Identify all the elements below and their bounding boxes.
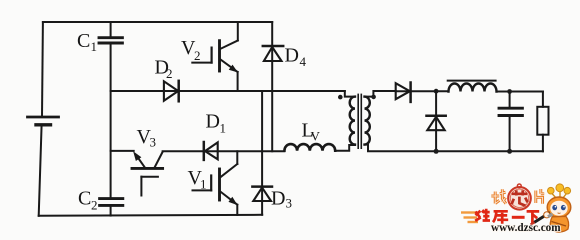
red text ku (库) xyxy=(493,211,508,223)
label V1 xyxy=(188,167,207,192)
wire inductor to load xyxy=(497,91,543,93)
svg-text:D: D xyxy=(206,111,220,133)
transformer primary winding xyxy=(350,97,355,145)
red circle with xin (芯) xyxy=(508,187,531,210)
svg-text:1: 1 xyxy=(200,177,207,192)
battery GB short plate xyxy=(36,123,51,126)
pen xyxy=(534,213,550,223)
diode D1 xyxy=(204,142,218,160)
wire center vertical C1 to C2 xyxy=(110,44,112,197)
svg-text:3: 3 xyxy=(150,135,157,150)
svg-text:C: C xyxy=(78,188,91,210)
svg-text:4: 4 xyxy=(300,54,307,69)
label V2 xyxy=(181,37,201,63)
IGBT V2 xyxy=(192,22,238,91)
svg-text:www.dzsc.com: www.dzsc.com xyxy=(491,222,561,234)
wire left vertical (battery branch top) xyxy=(41,22,44,117)
body xyxy=(550,216,568,232)
head xyxy=(547,197,571,217)
label D4 xyxy=(285,45,307,70)
output inductor core bar xyxy=(448,80,496,82)
wire center vertical below C2 xyxy=(110,207,112,216)
svg-text:C: C xyxy=(77,30,90,52)
transformer secondary winding xyxy=(365,97,370,145)
secondary dot xyxy=(371,95,376,100)
wire lower horizontal mid segment xyxy=(163,150,285,152)
char zhao (找) orange xyxy=(491,189,506,203)
mascot xyxy=(531,184,571,232)
node dot at freewheel diode top xyxy=(434,89,439,94)
transistor V3 xyxy=(132,152,163,196)
wire branch D3 vertical xyxy=(261,91,263,215)
label D2 xyxy=(155,57,173,82)
transformer core xyxy=(357,94,359,148)
wire LV to transformer xyxy=(335,145,355,151)
freewheeling diode xyxy=(427,116,446,130)
node dot cap top xyxy=(507,89,512,94)
output inductor xyxy=(449,84,497,92)
svg-text:D: D xyxy=(271,188,285,210)
wire branch D4 vertical xyxy=(271,22,273,151)
char pian (片) orange xyxy=(536,189,544,204)
svg-text:D: D xyxy=(285,45,299,67)
svg-text:1: 1 xyxy=(91,39,98,54)
label LV xyxy=(302,120,321,144)
battery GB long plate xyxy=(28,116,59,119)
wire y91 step down to transformer primary xyxy=(345,91,355,97)
load resistor xyxy=(542,92,544,107)
red text wei (维) xyxy=(475,209,490,221)
node dot freewheel bottom xyxy=(434,149,439,154)
output capacitor branch xyxy=(509,92,511,152)
wire bottom rail xyxy=(39,215,263,216)
wire center vertical above C1 xyxy=(110,22,112,36)
wire left vertical (battery branch bottom) xyxy=(39,125,42,216)
svg-text:1: 1 xyxy=(220,121,227,136)
crown balls xyxy=(548,184,571,199)
diode D2 xyxy=(164,81,179,102)
transformer secondary leads xyxy=(365,91,396,97)
IGBT V1 xyxy=(193,151,238,215)
freewheeling diode branch xyxy=(435,91,437,151)
capacitor C1 xyxy=(99,36,122,39)
red text yi (一) xyxy=(512,216,525,219)
wire lower horizontal left segment xyxy=(111,150,134,152)
svg-text:2: 2 xyxy=(194,48,201,63)
watermark dzsc logo xyxy=(461,184,571,234)
output rectifier diode xyxy=(396,83,411,102)
wire top rail xyxy=(43,21,272,23)
speed lines xyxy=(461,213,478,223)
svg-text:3: 3 xyxy=(286,196,293,211)
wire mid horizontal y91 xyxy=(111,90,345,92)
node dot cap bottom xyxy=(507,149,512,154)
capacitor C2 xyxy=(100,197,123,200)
diode D4 xyxy=(263,46,283,61)
diode D3 xyxy=(252,187,272,201)
label V3 xyxy=(137,126,157,150)
primary dot xyxy=(338,95,343,100)
label D1 xyxy=(206,111,227,136)
label C2 xyxy=(78,188,98,213)
red text xia (下) xyxy=(527,211,540,223)
output capacitor plates xyxy=(499,107,522,110)
label C1 xyxy=(77,30,97,54)
wire secondary top xyxy=(396,90,449,92)
label D3 xyxy=(271,188,292,211)
svg-text:V: V xyxy=(311,129,321,144)
svg-text:2: 2 xyxy=(91,198,98,213)
svg-text:2: 2 xyxy=(166,66,173,81)
inductor LV xyxy=(284,144,335,151)
